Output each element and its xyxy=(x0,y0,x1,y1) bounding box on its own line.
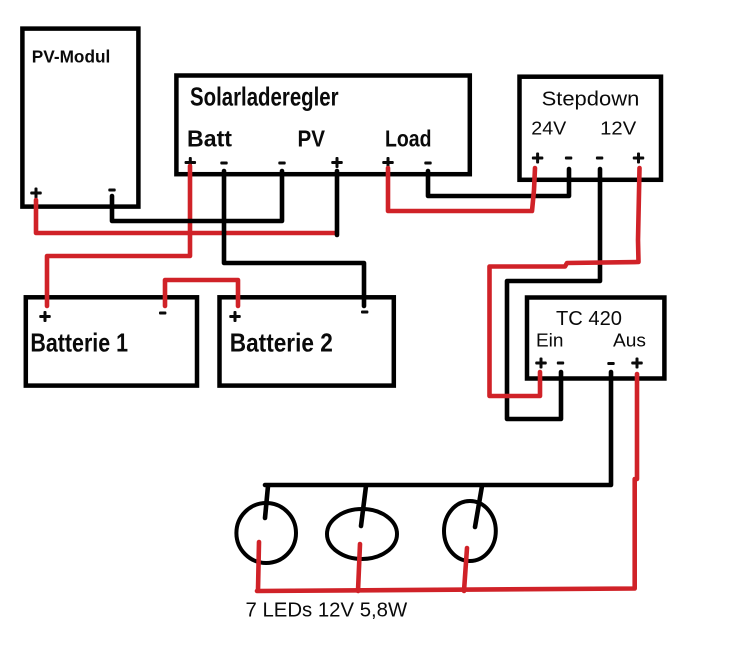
LED lamp 1 xyxy=(236,503,296,563)
Aus label xyxy=(613,330,646,351)
24V plus terminal label xyxy=(532,153,544,164)
Batt plus terminal label xyxy=(185,157,197,168)
wire Solarladeregler Batt plus to Batterie 1 plus (red) xyxy=(47,166,190,306)
wire LED 3 tap (black) xyxy=(475,486,482,527)
wire Stepdown 12V plus to TC 420 Ein plus (red) xyxy=(490,168,640,396)
Aus minus terminal label xyxy=(607,362,614,365)
svg-text:TC 420: TC 420 xyxy=(556,307,622,330)
Batterie 1 minus terminal label xyxy=(159,312,166,315)
svg-text:Load: Load xyxy=(385,126,432,152)
Ein label xyxy=(536,330,564,351)
svg-text:7 LEDs 12V 5,8W: 7 LEDs 12V 5,8W xyxy=(246,599,408,621)
7 LEDs 12V 5,8W label xyxy=(246,599,408,621)
wire LED 1 tap (black) xyxy=(265,486,268,518)
TC 420 label xyxy=(556,307,622,330)
TC 420 box xyxy=(527,298,664,379)
svg-text:Ein: Ein xyxy=(536,330,564,351)
wire Solarladeregler Load plus to Stepdown 24V plus (red) xyxy=(388,168,535,211)
Batterie 2 label xyxy=(230,328,333,358)
PV-Modul label xyxy=(32,47,111,67)
Batt minus terminal label xyxy=(220,162,227,165)
wire LED 3 red drop xyxy=(464,548,467,591)
Ein plus terminal label xyxy=(535,358,547,369)
svg-text:12V: 12V xyxy=(600,118,637,139)
Batt label xyxy=(187,126,232,152)
svg-text:PV-Modul: PV-Modul xyxy=(32,47,111,67)
12V label xyxy=(600,118,637,139)
wire LED 2 red drop xyxy=(358,544,360,591)
svg-text:Solarladeregler: Solarladeregler xyxy=(190,84,339,112)
svg-text:24V: 24V xyxy=(531,118,567,139)
wire Solarladeregler Batt minus to Batterie 2 minus (black) xyxy=(224,171,364,306)
LED lamp 3 xyxy=(444,501,496,561)
PV-Modul box xyxy=(22,29,138,207)
svg-text:Stepdown: Stepdown xyxy=(542,89,640,111)
Batterie 1 plus terminal label xyxy=(39,311,51,322)
PV label xyxy=(298,126,326,152)
Batterie 2 box xyxy=(220,297,394,385)
Stepdown label xyxy=(542,89,640,111)
wire stub Solarladeregler PV plus (black) xyxy=(335,171,340,235)
wire LED 1 red drop xyxy=(258,542,259,590)
Aus plus terminal label xyxy=(631,358,643,369)
Load label xyxy=(385,126,432,152)
Solarladeregler box xyxy=(176,76,469,175)
PV minus terminal label xyxy=(278,162,285,165)
Stepdown box xyxy=(520,77,662,180)
wire PV-Modul minus to Solarladeregler PV minus (black) xyxy=(112,171,282,221)
wire LED 2 tap (black) xyxy=(361,486,366,526)
wire TC 420 Aus plus to LED red bus (red) xyxy=(257,374,637,591)
svg-text:Aus: Aus xyxy=(613,330,646,351)
wire Stepdown 12V minus to TC 420 Ein minus (black) xyxy=(507,169,600,419)
wire jumper Batterie 1 minus to Batterie 2 plus (red) xyxy=(165,280,238,306)
Batterie 1 box xyxy=(26,297,197,385)
PV plus terminal label xyxy=(331,157,343,168)
Solarladeregler label xyxy=(190,84,339,112)
wire PV-Modul plus to Solarladeregler PV plus (red) xyxy=(36,200,335,233)
Load plus terminal label xyxy=(382,157,394,168)
svg-text:Batterie 2: Batterie 2 xyxy=(230,328,333,358)
Load minus terminal label xyxy=(424,162,431,165)
Batterie 2 minus terminal label xyxy=(361,311,368,314)
12V minus terminal label xyxy=(596,157,603,160)
12V plus terminal label xyxy=(633,153,645,164)
24V label xyxy=(531,118,567,139)
wire Solarladeregler Load minus to Stepdown 24V minus (black) xyxy=(428,169,569,196)
LED lamp 2 xyxy=(327,509,397,559)
PV-Modul minus terminal label xyxy=(108,189,115,192)
svg-text:Batt: Batt xyxy=(187,126,232,152)
Batterie 2 plus terminal label xyxy=(229,311,241,322)
svg-text:PV: PV xyxy=(298,126,326,152)
PV-Modul plus terminal label xyxy=(30,188,42,199)
wire TC 420 Aus minus to LED bus (black) xyxy=(265,372,611,485)
svg-text:Batterie 1: Batterie 1 xyxy=(30,328,128,358)
24V minus terminal label xyxy=(565,157,572,160)
Ein minus terminal label xyxy=(557,362,564,365)
Batterie 1 label xyxy=(30,328,128,358)
